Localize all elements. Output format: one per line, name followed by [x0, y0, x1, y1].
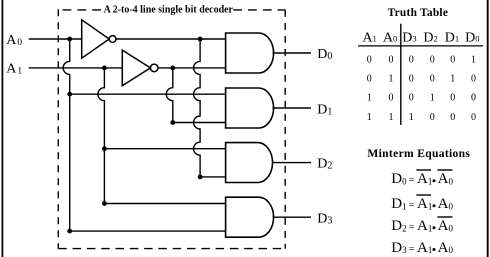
wire A1 input [29, 67, 123, 69]
svg-text:1: 1 [450, 74, 455, 85]
truth table row 1 [367, 54, 476, 65]
svg-text:0: 0 [409, 93, 414, 104]
svg-text:0: 0 [450, 112, 455, 123]
junction node A0 tap [67, 37, 72, 42]
truth table row 4 [367, 112, 476, 123]
svg-text:1: 1 [409, 112, 414, 123]
wire output D0 [273, 52, 312, 54]
page right border [487, 0, 489, 257]
equation D0 = A1bar . A0bar [391, 170, 453, 187]
inverter U2 (A1) triangle [122, 50, 150, 86]
vertical wire A0 with hop over A1 [63, 39, 69, 231]
page left border [1, 0, 3, 257]
svg-text:0: 0 [471, 93, 476, 104]
svg-text:Truth Table: Truth Table [388, 7, 448, 19]
vertical wire A1 with hop over A0-dist [98, 68, 105, 204]
junction node A1 to D2 [102, 146, 107, 151]
junction node A1 elbow [102, 201, 107, 206]
dashed decoder box left border [57, 9, 59, 248]
wire A1-bar to gate D0 [158, 67, 225, 69]
wire output D1 [273, 107, 312, 109]
truth table header rule [358, 45, 483, 47]
wire A1 to gate D2 [104, 148, 225, 150]
dashed decoder box top-left segment [58, 9, 103, 11]
dashed decoder box right border [284, 10, 286, 249]
svg-text:1: 1 [430, 93, 435, 104]
svg-text:0: 0 [430, 54, 435, 65]
svg-text:=: = [409, 222, 415, 233]
vertical wire A0-bar with four hops [194, 39, 200, 177]
wire A1-bar to gate D1 [173, 122, 225, 124]
svg-text:1: 1 [471, 54, 476, 65]
AND gate D1 [226, 88, 274, 128]
wire A0 to gate D3 [70, 230, 225, 232]
svg-text:0: 0 [471, 74, 476, 85]
junction node A0-dist [67, 92, 72, 97]
dashed decoder box bottom border [58, 248, 285, 250]
wire A0 input [29, 38, 82, 40]
svg-text:0: 0 [409, 74, 414, 85]
vertical wire A1-bar with hop over A0-dist [166, 68, 172, 123]
wire A0-dist to gate D1 [70, 93, 225, 95]
svg-text:1: 1 [367, 93, 372, 104]
svg-text:0: 0 [367, 74, 372, 85]
svg-text:1: 1 [389, 74, 394, 85]
wire A0-bar to gate D0 [116, 38, 225, 40]
svg-text:0: 0 [450, 54, 455, 65]
svg-text:0: 0 [389, 54, 394, 65]
svg-text:0: 0 [389, 93, 394, 104]
junction node A0 elbow [67, 229, 72, 234]
wire output D3 [273, 216, 312, 218]
wire A0-bar to gate D2 [200, 176, 225, 178]
truth table row 2 [367, 74, 476, 85]
svg-text:0: 0 [367, 54, 372, 65]
svg-text:=: = [409, 244, 415, 255]
AND gate D2 [226, 143, 273, 183]
inverter U1 bubble [109, 36, 116, 43]
svg-text:=: = [409, 200, 415, 211]
svg-text:A 2-to-4 line single bit decod: A 2-to-4 line single bit decoder [104, 4, 234, 16]
junction node A1-bar elbow [170, 120, 175, 125]
junction node A1-bar tap [170, 66, 175, 71]
truth table vertical divider [400, 24, 402, 125]
svg-text:=: = [409, 175, 415, 186]
svg-text:0: 0 [471, 112, 476, 123]
truth table row 3 [367, 93, 476, 104]
equation D1 = A1bar . A0 [391, 195, 453, 212]
svg-text:0: 0 [409, 54, 414, 65]
inverter U2 bubble [150, 64, 158, 72]
svg-text:0: 0 [430, 112, 435, 123]
svg-text:0: 0 [450, 93, 455, 104]
svg-text:0: 0 [430, 74, 435, 85]
junction node A0-bar elbow [198, 175, 203, 180]
AND gate D3 [226, 197, 274, 237]
wire A1 to gate D3 [104, 203, 225, 205]
dashed decoder box top-right segment [233, 9, 285, 11]
equation D3 = A1 . A0 [391, 240, 453, 256]
junction node A1 tap [102, 66, 107, 71]
svg-text:1: 1 [367, 112, 372, 123]
AND gate D0 [226, 33, 274, 73]
svg-text:Minterm Equations: Minterm Equations [367, 147, 470, 160]
wire output D2 [273, 162, 312, 164]
svg-text:1: 1 [389, 112, 394, 123]
junction node A0-bar tap [198, 37, 203, 42]
equation D2 = A1 . A0bar [391, 217, 453, 234]
inverter U1 (A0) triangle [82, 20, 110, 58]
